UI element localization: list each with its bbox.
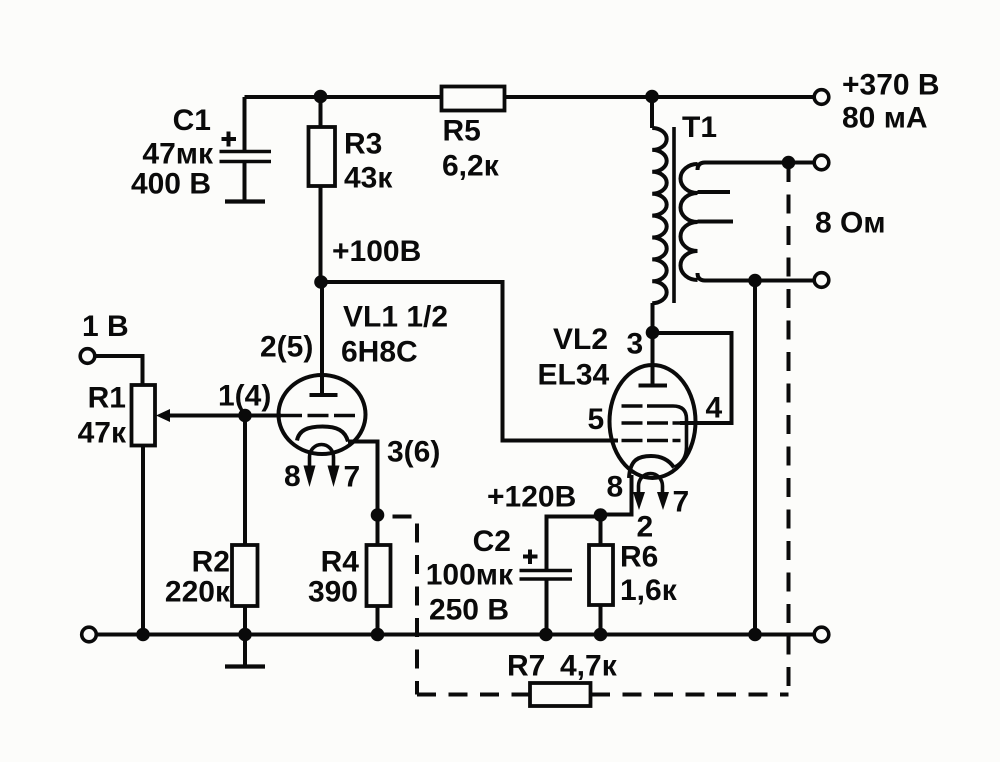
node dot +120B: [594, 508, 608, 522]
svg-text:R7: R7: [507, 650, 545, 683]
wire VL1 anode lead: [320, 282, 324, 393]
dashed feedback bottom right run: [591, 693, 789, 697]
node dot rail right: [748, 628, 762, 642]
C1 plus sign: [222, 132, 237, 147]
VL2 heater arrow pin 7 shaft: [661, 486, 665, 494]
VL2 heater arrow pin 8 shaft: [637, 486, 641, 494]
VL2 suppressor grid dashes: [622, 404, 665, 408]
wire C2 bottom lead: [545, 580, 549, 635]
terminal bottom left: [82, 627, 97, 642]
svg-text:Т1: Т1: [682, 111, 717, 144]
terminal secondary top: [814, 155, 829, 170]
svg-text:1,6к: 1,6к: [620, 574, 678, 607]
wire R2 chain: [243, 416, 247, 635]
node dot top rail R3: [314, 90, 328, 104]
VL2 heater dome: [639, 473, 663, 486]
resistor R5 body: [442, 87, 505, 111]
terminal bottom right: [814, 627, 829, 642]
wire grid node to VL1: [245, 414, 281, 418]
wire R4 chain: [376, 515, 380, 635]
svg-text:3(6): 3(6): [387, 436, 440, 469]
resistor R3 body: [309, 127, 336, 186]
wire T1 secondary top lead: [698, 163, 815, 171]
wire R1 input: [95, 356, 143, 385]
svg-text:R6: R6: [620, 541, 658, 574]
svg-text:3: 3: [627, 328, 644, 361]
terminal +370V: [814, 90, 829, 105]
svg-text:7: 7: [673, 486, 690, 519]
VL2 control grid dashes: [622, 439, 681, 443]
VL2 suppressor internal wire: [664, 406, 687, 467]
svg-text:+100В: +100В: [332, 235, 421, 268]
svg-text:43к: 43к: [344, 162, 393, 195]
ground under R2 stub: [243, 635, 247, 666]
svg-text:1 В: 1 В: [82, 310, 129, 343]
svg-text:47к: 47к: [78, 417, 127, 450]
svg-text:VL1 1/2: VL1 1/2: [343, 301, 448, 334]
VL1 anode bar: [310, 393, 338, 397]
transformer T1 secondary winding: [681, 164, 698, 280]
ground under R2 bar: [225, 664, 265, 668]
svg-text:8 Ом: 8 Ом: [815, 207, 886, 240]
VL2 screen grid dashes: [622, 421, 681, 425]
resistor R7 body: [530, 683, 591, 706]
wire C1 bottom lead: [243, 162, 247, 200]
wire T1 primary top lead: [650, 97, 654, 128]
svg-text:EL34: EL34: [538, 359, 610, 392]
transformer T1 core: [672, 127, 676, 303]
wire +100B to VL2 grid: [321, 282, 619, 441]
svg-text:C2: C2: [473, 525, 511, 558]
wire C2 node link: [547, 517, 601, 570]
svg-text:7: 7: [344, 461, 361, 494]
VL2 anode bar: [639, 384, 668, 388]
VL1 heater arrow pin 8: [308, 457, 312, 468]
wire top rail: [245, 95, 815, 99]
svg-text:4,7к: 4,7к: [560, 650, 618, 683]
svg-text:R3: R3: [344, 128, 382, 161]
svg-text:1(4): 1(4): [218, 380, 271, 413]
node dot rail R6: [594, 628, 608, 642]
wire bottom rail: [96, 633, 814, 637]
svg-text:8: 8: [284, 460, 301, 493]
node dot VL1 cathode / R4: [371, 508, 385, 522]
wire VL1 cathode lead: [348, 442, 378, 516]
wire VL2 cathode lead: [602, 475, 632, 515]
potentiometer R1 wiper arrow: [156, 409, 170, 422]
capacitor C1 plates: [220, 150, 272, 154]
svg-text:R4: R4: [321, 546, 360, 579]
node dot rail R1: [136, 628, 150, 642]
node dot secondary top: [782, 156, 796, 170]
svg-text:220к: 220к: [165, 576, 231, 609]
node dot top rail T1: [645, 90, 659, 104]
tube VL1 envelope: [279, 375, 366, 454]
svg-text:C1: C1: [173, 104, 211, 137]
terminal input 1B: [80, 349, 95, 364]
svg-text:R1: R1: [88, 382, 126, 415]
svg-text:8: 8: [607, 471, 624, 504]
svg-text:6Н8С: 6Н8С: [341, 336, 418, 369]
C2 plus sign: [523, 550, 538, 565]
wire T1 secondary tap 1: [698, 190, 731, 194]
svg-text:100мк: 100мк: [426, 559, 514, 592]
svg-text:R2: R2: [192, 546, 230, 579]
svg-text:400 В: 400 В: [131, 168, 211, 201]
terminal secondary bottom: [814, 273, 829, 288]
svg-text:5: 5: [588, 403, 605, 436]
svg-text:R5: R5: [443, 115, 481, 148]
node dot secondary bottom: [748, 274, 762, 288]
capacitor C2 plates: [520, 569, 573, 572]
VL1 heater arrow pin 7: [332, 457, 336, 468]
resistor R6 body: [589, 545, 613, 605]
wire anode to screen grid pin4: [653, 333, 732, 423]
VL2 cathode arc: [629, 456, 674, 478]
transformer T1 primary winding: [652, 128, 667, 303]
node dot rail R2: [238, 628, 252, 642]
svg-text:390: 390: [308, 576, 358, 609]
wire R3 vertical chain top rail to +100B node: [319, 97, 323, 282]
node dot rail R4: [371, 628, 385, 642]
svg-text:4: 4: [706, 392, 723, 425]
node dot VL1 grid: [238, 409, 252, 423]
svg-text:+120В: +120В: [487, 481, 576, 514]
svg-text:80 мА: 80 мА: [842, 102, 928, 135]
wire R1 lower lead: [141, 446, 145, 635]
svg-text:+370 В: +370 В: [842, 69, 940, 102]
svg-text:VL2: VL2: [553, 323, 608, 356]
wire C1 top lead: [243, 97, 247, 151]
resistor R2 body: [232, 545, 258, 606]
wire T1 secondary tap 2: [698, 220, 734, 224]
svg-text:2: 2: [637, 511, 654, 544]
wire R6 chain: [599, 516, 603, 635]
svg-text:250 В: 250 В: [429, 594, 509, 627]
node dot +100B: [314, 275, 328, 289]
wire VL2 anode lead: [651, 303, 655, 386]
dashed feedback from VL1 cathode: [380, 517, 417, 695]
wire R1 wiper to grid node: [166, 414, 245, 418]
ground under C1 bar: [225, 199, 265, 203]
VL1 grid dashes: [281, 414, 360, 418]
wire secondary bottom junction down to rail: [753, 281, 757, 635]
svg-text:2(5): 2(5): [260, 331, 313, 364]
resistor R4 body: [367, 545, 391, 606]
VL1 cathode arc: [297, 427, 348, 442]
dashed feedback right vertical: [787, 163, 791, 695]
potentiometer R1 body: [132, 385, 156, 446]
svg-text:47мк: 47мк: [142, 138, 214, 171]
VL1 heater dome: [310, 444, 334, 457]
wire T1 secondary bottom lead: [698, 273, 815, 281]
tube VL2 envelope: [610, 365, 696, 478]
node dot rail C2: [539, 628, 553, 642]
node dot VL2 anode pin3: [646, 326, 660, 340]
svg-text:6,2к: 6,2к: [442, 150, 500, 183]
dashed feedback bottom left run: [417, 693, 530, 697]
